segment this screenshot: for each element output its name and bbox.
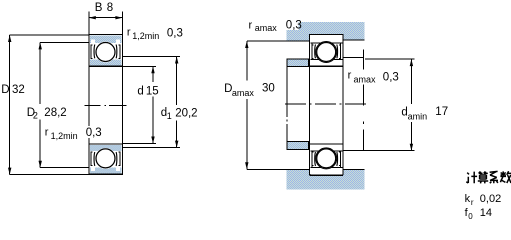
svg-text:amax: amax xyxy=(354,74,377,84)
svg-text:1,2min: 1,2min xyxy=(132,31,159,41)
svg-text:B: B xyxy=(95,2,103,14)
svg-text:amax: amax xyxy=(255,23,278,33)
svg-text:d: d xyxy=(137,85,143,97)
svg-text:r: r xyxy=(348,70,352,82)
svg-text:D: D xyxy=(1,84,9,96)
svg-text:k: k xyxy=(465,193,471,205)
svg-text:0,02: 0,02 xyxy=(480,193,501,205)
svg-text:0,3: 0,3 xyxy=(86,127,102,139)
svg-text:32: 32 xyxy=(12,84,25,96)
svg-text:1,2min: 1,2min xyxy=(51,131,78,141)
svg-text:17: 17 xyxy=(435,106,448,118)
svg-text:14: 14 xyxy=(480,207,492,219)
svg-text:15: 15 xyxy=(146,86,159,98)
svg-text:20,2: 20,2 xyxy=(175,107,197,119)
svg-text:30: 30 xyxy=(262,83,275,95)
svg-text:amin: amin xyxy=(408,111,428,121)
svg-text:0: 0 xyxy=(468,212,473,220)
svg-text:0,3: 0,3 xyxy=(286,19,302,31)
svg-text:1: 1 xyxy=(167,111,172,121)
svg-text:amax: amax xyxy=(232,88,255,98)
svg-text:r: r xyxy=(249,19,253,31)
svg-text:r: r xyxy=(127,27,131,39)
svg-text:0,3: 0,3 xyxy=(167,27,183,39)
svg-text:r: r xyxy=(471,198,474,207)
svg-text:r: r xyxy=(45,127,49,139)
svg-text:2: 2 xyxy=(33,111,38,121)
svg-text:28,2: 28,2 xyxy=(44,107,66,119)
svg-text:0,3: 0,3 xyxy=(383,72,399,84)
svg-text:8: 8 xyxy=(107,2,113,14)
